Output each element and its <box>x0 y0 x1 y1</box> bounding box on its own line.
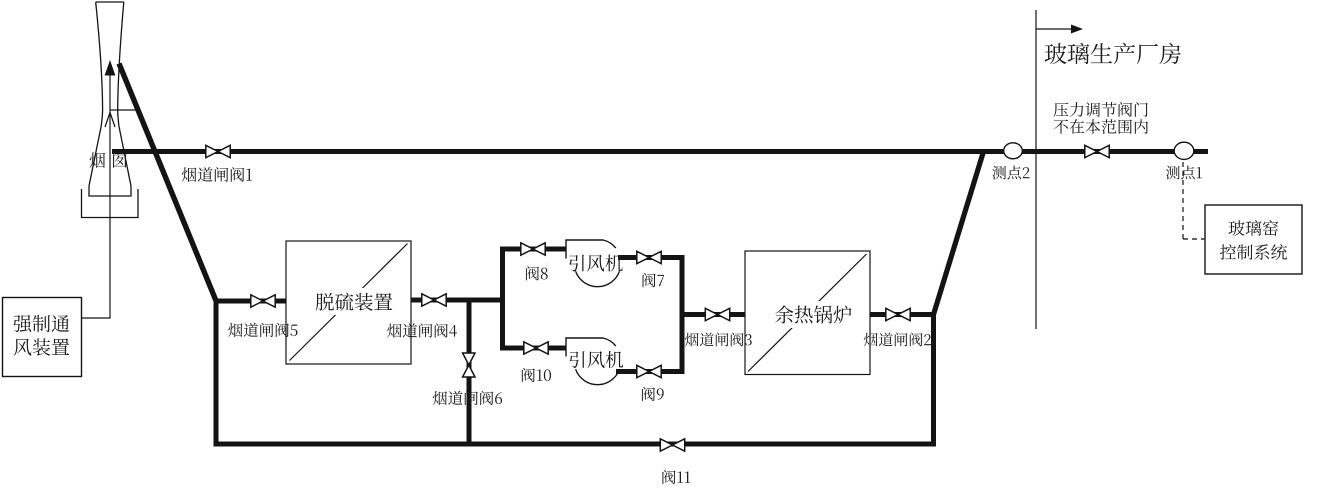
label cedian-2 <box>992 166 1029 180</box>
wire fan1 inlet pipe <box>500 247 567 252</box>
wire fan1 outlet pipe <box>618 255 685 260</box>
dashed link measuring point 1 to control box vertical <box>1182 162 1184 239</box>
label valve-10 <box>522 368 551 382</box>
label yanchong <box>90 152 127 168</box>
chimney small arrow head <box>105 113 115 128</box>
label flue-gate-valve-1 <box>182 167 252 182</box>
node measuring point 2 circle <box>1004 143 1023 159</box>
label tuoliu <box>316 293 393 311</box>
fan U2 induced draft fan bottom casing <box>566 338 620 385</box>
label valve-7 <box>643 273 665 287</box>
label valve-9 <box>642 387 664 401</box>
label fan1-text <box>569 255 623 272</box>
wire fan branch right vertical <box>680 255 685 374</box>
valve 烟道闸阀4 <box>422 294 446 306</box>
label flue-gate-valve-6 <box>433 391 502 405</box>
wire bottom bypass pipe <box>214 442 937 447</box>
label flue-gate-valve-3 <box>685 333 752 347</box>
label fengzhuangzhi <box>14 338 70 355</box>
label qiangzhitong <box>13 315 69 332</box>
wire right vertical pipe bottom <box>931 313 936 447</box>
wire main flue pipe top horizontal <box>112 149 1208 154</box>
label flue-gate-valve-2 <box>864 333 931 347</box>
valve 阀9 <box>637 365 661 377</box>
node measuring point 1 circle <box>1174 142 1194 159</box>
label yure <box>775 305 851 323</box>
boiler diagonal <box>748 254 867 372</box>
label fan2-text <box>570 351 624 368</box>
label glass-plant <box>1045 43 1181 64</box>
flow arrow into plant <box>1036 28 1073 30</box>
valve 阀7 <box>637 251 661 263</box>
box forced ventilation device 强制通风装置 <box>3 298 82 377</box>
label pressure-note-1 <box>1054 102 1148 117</box>
wire pipe corner to desulfurizer <box>214 299 287 304</box>
chimney center stack line <box>109 73 111 318</box>
box waste heat boiler 余热锅炉 <box>745 251 870 375</box>
label valve-8 <box>526 266 548 280</box>
wire fan2 inlet pipe <box>500 346 567 351</box>
label valve-11 <box>662 470 690 484</box>
dashed link horizontal <box>1183 238 1205 240</box>
valve 阀8 <box>521 243 545 255</box>
wire fan2 outlet pipe <box>616 369 685 374</box>
wire left vertical pipe <box>214 299 219 447</box>
label flue-gate-valve-4 <box>387 323 457 337</box>
fan U1 induced draft fan top casing <box>566 240 620 287</box>
label pressure-note-2 <box>1054 119 1148 134</box>
valve 烟道闸阀1 <box>206 145 230 157</box>
label flue-gate-valve-5 <box>228 323 297 337</box>
valve 烟道闸阀3 <box>705 308 729 320</box>
valve 阀10 <box>524 342 548 354</box>
box desulfurization device 脱硫装置 <box>286 241 411 364</box>
wire fan branch left vertical <box>500 247 505 351</box>
desulfurizer text mask <box>310 288 398 315</box>
label boli-yao <box>1229 220 1279 236</box>
chimney base bracket <box>82 189 139 218</box>
wire pipe desulfurizer to fan branch <box>410 298 505 303</box>
box glass kiln control system 玻璃窑控制系统 <box>1205 205 1302 274</box>
wire vertical pipe with valve6 down to bypass <box>467 300 472 444</box>
label cedian-1 <box>1166 166 1202 180</box>
valve 烟道闸阀6 vertical <box>463 353 475 377</box>
chimney big arrow head <box>105 60 116 76</box>
valve 阀11 <box>660 439 684 451</box>
wire pipe fan branch to boiler <box>682 312 746 317</box>
label kongzhi <box>1220 244 1287 260</box>
wire diagonal flue from chimney to corner <box>119 64 216 302</box>
flue entry step line <box>110 109 137 111</box>
plant boundary vertical line <box>1035 10 1037 329</box>
valve 烟道闸阀2 <box>886 308 910 320</box>
wire diagonal pipe right up to main flue <box>934 152 984 315</box>
wire link to forced ventilation box <box>82 317 111 319</box>
wire pipe boiler to junction <box>869 312 936 317</box>
boiler text mask <box>770 301 858 328</box>
valve pressure regulating (unlabeled) <box>1085 145 1109 157</box>
desulfurizer diagonal <box>290 244 408 361</box>
valve 烟道闸阀5 <box>251 295 275 307</box>
chimney shell outline <box>89 2 131 196</box>
